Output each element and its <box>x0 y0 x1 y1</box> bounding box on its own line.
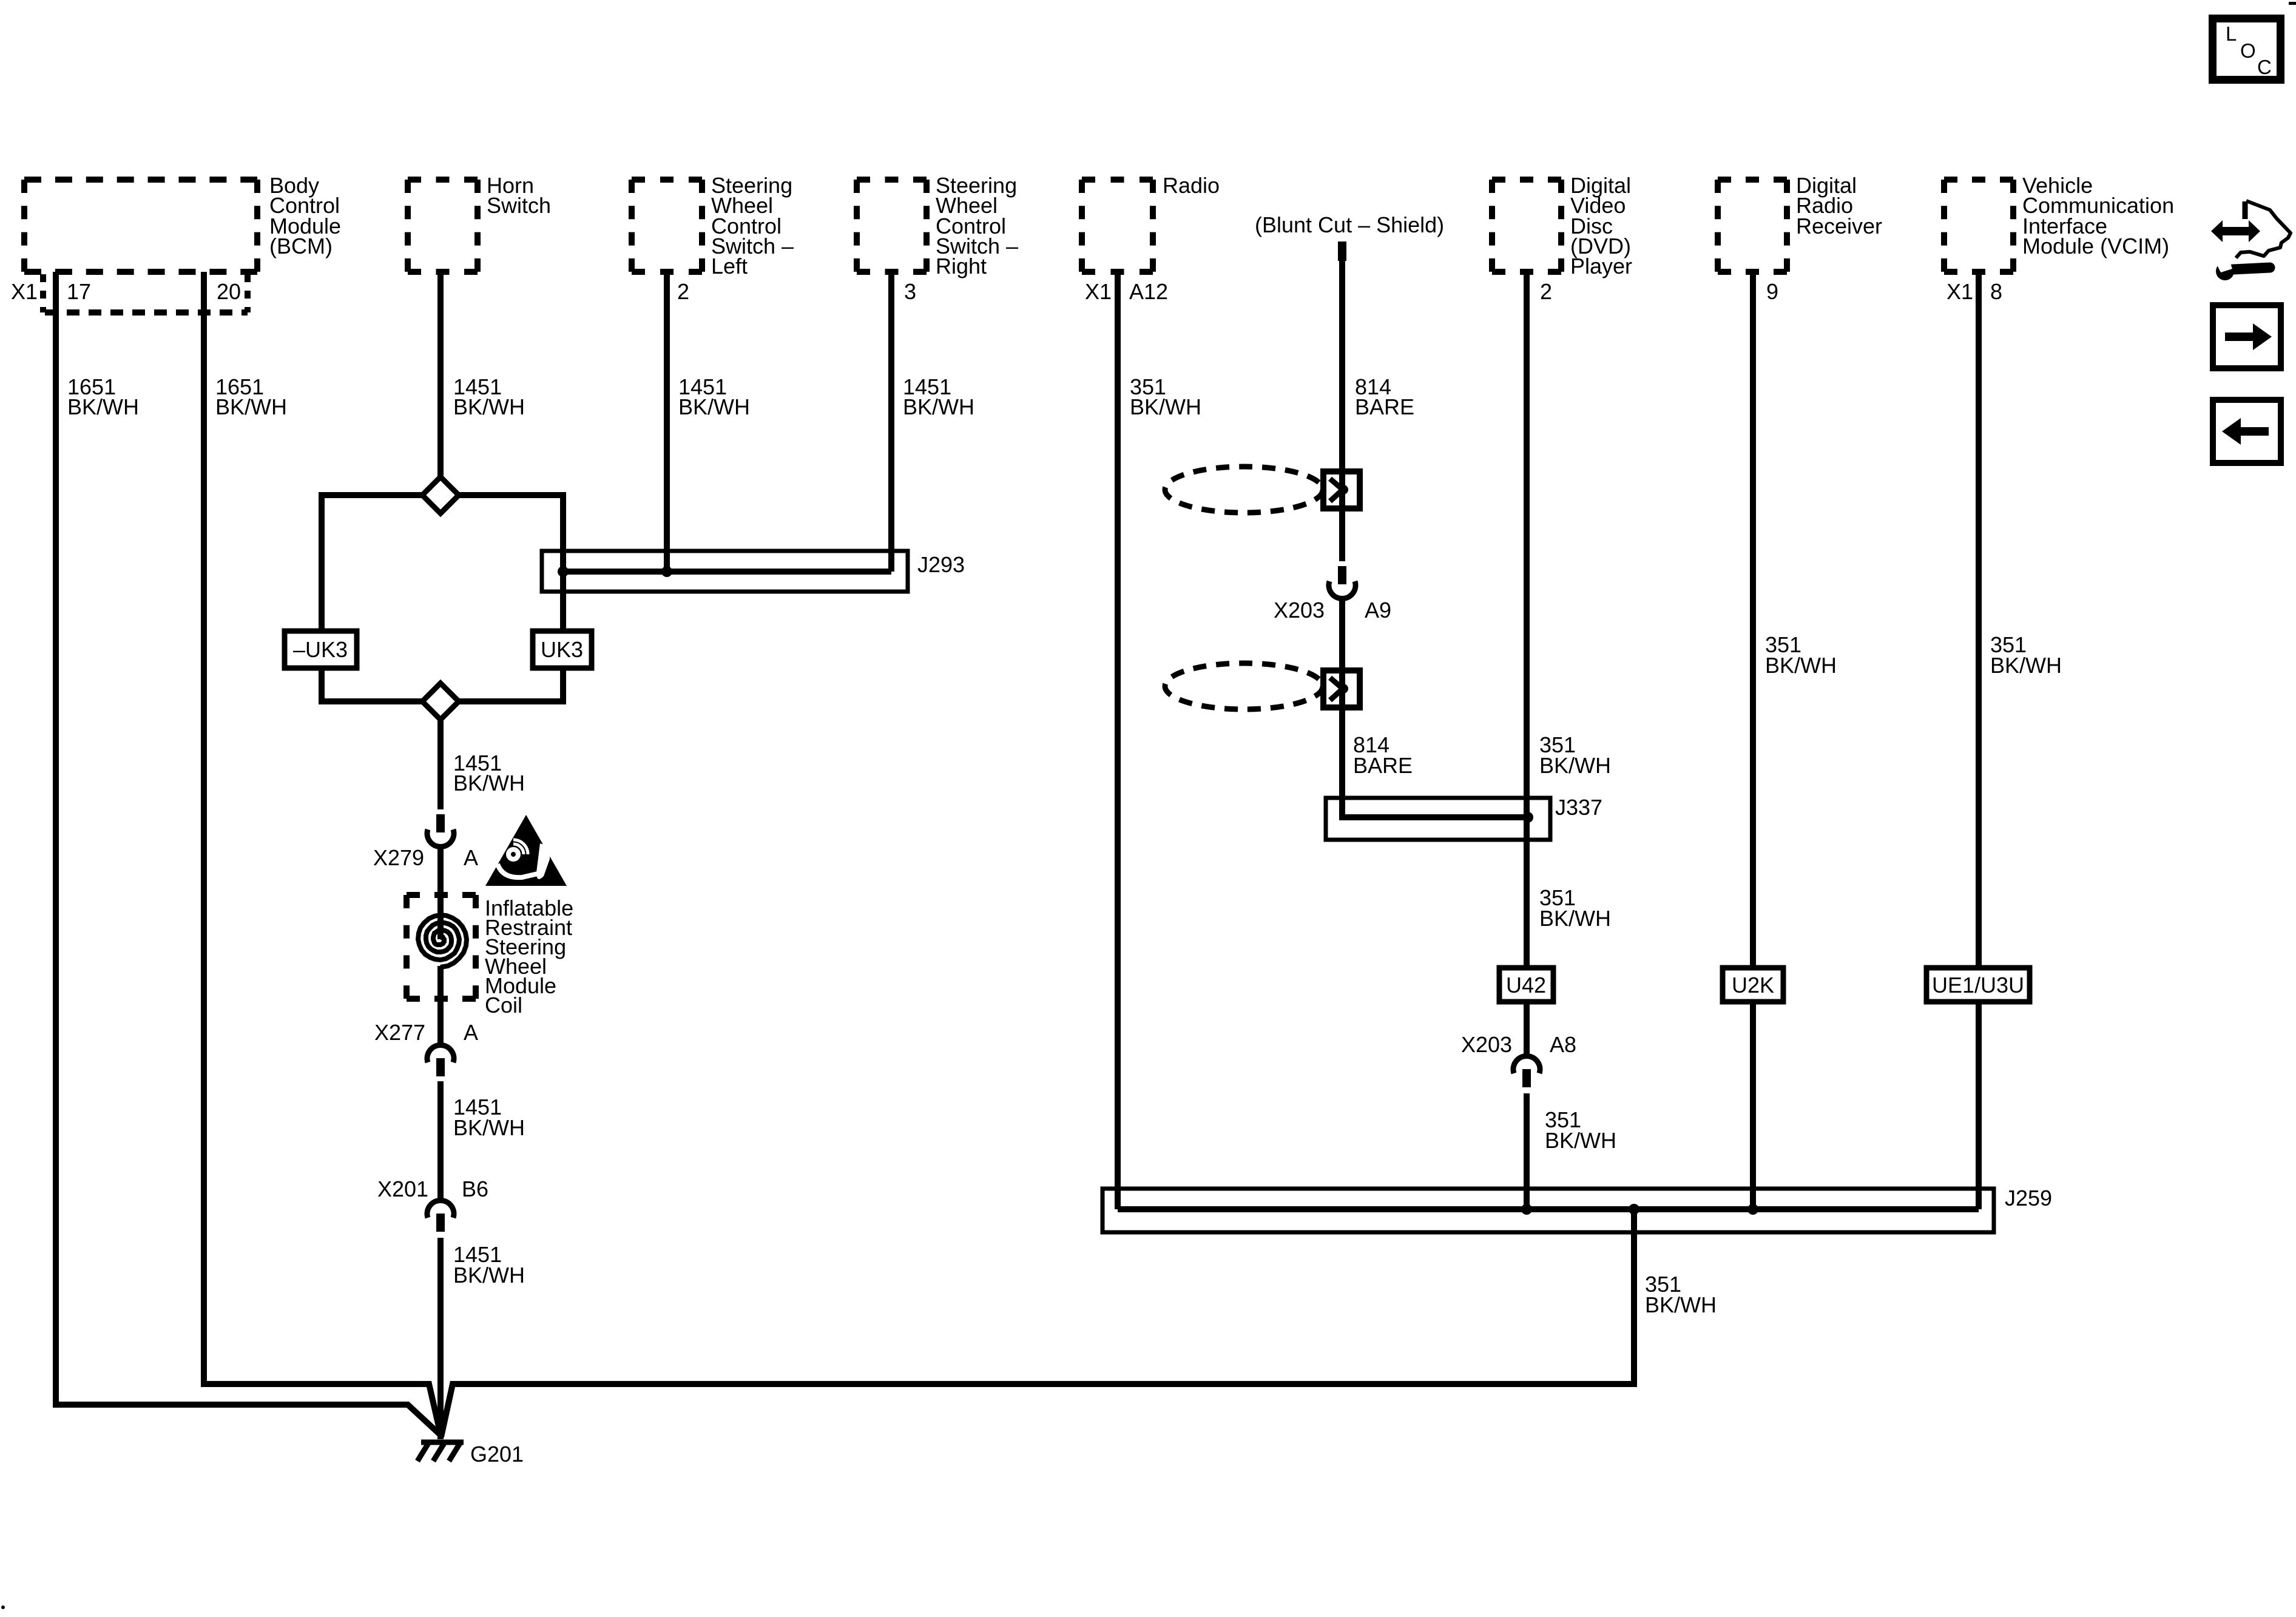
steering wheel control switch left label <box>711 173 794 279</box>
svg-text:Left: Left <box>711 254 748 279</box>
svg-text:UE1/U3U: UE1/U3U <box>1932 973 2024 998</box>
RPO box UE1/U3U <box>1926 968 2030 1002</box>
connector X203 A9 male terminal <box>1338 566 1346 584</box>
VCIM label <box>2022 173 2174 258</box>
wire label 1451 BK/WH above X201 <box>453 1095 525 1140</box>
svg-text:BK/WH: BK/WH <box>1539 753 1611 778</box>
body control module (BCM) dashed box <box>24 180 257 272</box>
svg-text:BK/WH: BK/WH <box>1545 1128 1616 1153</box>
coil spiral <box>418 915 467 967</box>
connector X203 A8 male terminal <box>1522 1069 1531 1087</box>
junction dot J259 DVD <box>1521 1204 1532 1215</box>
svg-text:Player: Player <box>1570 254 1632 279</box>
svg-text:2: 2 <box>677 279 689 304</box>
svg-text:–UK3: –UK3 <box>293 637 348 662</box>
splice pack J293 box <box>542 551 908 592</box>
wire 1451 BK/WH steering wheel control switch right to splice J293 <box>888 272 894 572</box>
digital radio receiver label <box>1796 173 1882 238</box>
SIR caution triangle <box>485 815 567 886</box>
svg-text:BK/WH: BK/WH <box>1765 653 1837 678</box>
svg-text:BK/WH: BK/WH <box>1130 394 1201 419</box>
svg-text:BK/WH: BK/WH <box>453 1115 525 1140</box>
svg-text:BK/WH: BK/WH <box>903 394 974 419</box>
wire 351 BK/WH VCIM to splice J259 <box>1976 272 1982 1209</box>
connector X279 female cup <box>427 829 454 847</box>
wire label 351 BK/WH ground drop <box>1645 1272 1717 1317</box>
svg-text:Switch: Switch <box>487 193 551 218</box>
wire left branch lower <box>319 665 325 704</box>
wire label 1451 BK/WH below X201 <box>453 1242 525 1288</box>
shield symbol 2 box <box>1323 670 1360 707</box>
svg-text:J259: J259 <box>2005 1186 2052 1210</box>
wire right branch upper through J293 <box>560 492 566 634</box>
svg-text:UK3: UK3 <box>541 637 583 662</box>
svg-text:X277: X277 <box>374 1020 425 1045</box>
svg-text:BK/WH: BK/WH <box>678 394 750 419</box>
legend forward arrow box <box>2213 305 2281 368</box>
svg-text:BARE: BARE <box>1355 394 1414 419</box>
shield symbol 2 drain arrow <box>1330 678 1348 700</box>
wire label 1451 BK/WH SWCS left <box>678 374 750 419</box>
svg-text:17: 17 <box>67 279 91 304</box>
RPO box U42 <box>1499 968 1553 1002</box>
svg-text:9: 9 <box>1766 279 1778 304</box>
svg-text:A: A <box>464 1020 478 1045</box>
junction dot J293 left <box>558 566 569 577</box>
page artifact top right <box>2289 2 2296 5</box>
steering wheel control switch right dashed box <box>857 180 927 272</box>
connector X279 male terminal <box>436 814 445 832</box>
svg-text:U42: U42 <box>1506 973 1546 998</box>
BCM label <box>269 173 341 258</box>
radio dashed box <box>1082 180 1153 272</box>
wire 351 BK/WH from splice J259 to ground G201 <box>441 1209 1634 1437</box>
svg-text:A12: A12 <box>1129 279 1168 304</box>
wire 1451 BK/WH X279 to coil <box>437 847 444 939</box>
legend back arrow box <box>2213 400 2281 463</box>
wire 351 BK/WH X203 A8 to splice J259 <box>1524 1093 1530 1209</box>
wire lower loop horizontal right <box>456 698 563 704</box>
wire label 351 BK/WH below X203 A8 <box>1545 1107 1616 1153</box>
steering wheel control switch left dashed box <box>632 180 702 272</box>
svg-text:BK/WH: BK/WH <box>1645 1292 1717 1317</box>
RPO box U2K <box>1723 968 1783 1002</box>
junction dot J259 DRR <box>1747 1204 1758 1215</box>
wire 1451 BK/WH steering wheel control switch left to splice J293 <box>664 272 670 572</box>
svg-text:Coil: Coil <box>485 993 522 1018</box>
wire label 1651 BK/WH pin 20 <box>215 374 287 419</box>
circuit option box UK3 <box>533 631 592 668</box>
wire 1451 BK/WH X277 to connector X201 <box>437 1081 444 1201</box>
connector X277 female cup <box>427 1045 454 1062</box>
wire label 1451 BK/WH below diamond <box>453 751 525 795</box>
svg-text:(BCM): (BCM) <box>269 234 333 258</box>
circuit option box -UK3 <box>285 631 357 668</box>
svg-text:BK/WH: BK/WH <box>453 394 525 419</box>
connector X203 A8 female cup <box>1513 1056 1540 1073</box>
splice J293 bus bar <box>563 569 891 575</box>
svg-text:X201: X201 <box>377 1176 428 1201</box>
coil module label <box>485 896 573 1018</box>
svg-text:X203: X203 <box>1461 1032 1512 1057</box>
svg-text:8: 8 <box>1990 279 2002 304</box>
shield symbol 1 box <box>1323 471 1360 508</box>
connector X277 male terminal <box>436 1058 445 1076</box>
connector X201 female cup <box>427 1200 454 1218</box>
svg-text:2: 2 <box>1540 279 1552 304</box>
wire label 351 BK/WH VCIM <box>1990 632 2062 678</box>
wire upper loop horizontal left <box>322 492 425 498</box>
svg-text:C: C <box>2257 56 2272 78</box>
wire 1451 BK/WH coil to connector X277 <box>437 966 444 1046</box>
wire 351 BK/WH digital radio receiver to splice J259 <box>1750 272 1756 1209</box>
junction dot J293 centre <box>661 566 672 577</box>
wire 1451 BK/WH diamond to connector X279 <box>437 720 444 809</box>
wire label 814 BARE blunt cut <box>1355 374 1414 419</box>
svg-text:J337: J337 <box>1555 795 1602 820</box>
wire label 351 BK/WH radio <box>1130 374 1201 419</box>
svg-text:BK/WH: BK/WH <box>453 771 525 795</box>
shield drain ellipse 2 <box>1165 663 1323 709</box>
svg-text:O: O <box>2240 39 2256 62</box>
ground G201 symbol <box>417 1442 464 1461</box>
svg-text:Right: Right <box>936 254 987 279</box>
diamond junction lower <box>422 683 459 720</box>
svg-text:X1: X1 <box>11 279 38 304</box>
legend connector repair icon <box>2211 201 2291 280</box>
wire label 351 BK/WH below J337 <box>1539 885 1611 931</box>
wire 814 BARE blunt cut to connector X203 A9 <box>1339 261 1345 561</box>
splice pack J259 box <box>1102 1189 1994 1232</box>
wire label 1451 BK/WH SWCS right <box>903 374 974 419</box>
horn switch dashed box <box>408 180 478 272</box>
steering wheel control switch right label <box>936 173 1018 279</box>
wire label 1451 BK/WH horn <box>453 374 525 419</box>
wire lower loop horizontal left <box>322 698 425 704</box>
junction dot J337 <box>1522 812 1533 823</box>
svg-text:A: A <box>464 845 478 870</box>
wire label 1651 BK/WH pin 17 <box>67 374 139 419</box>
junction dot J259 ground drop <box>1629 1204 1639 1215</box>
wire 1451 BK/WH X201 to ground G201 <box>437 1238 444 1439</box>
svg-text:20: 20 <box>217 279 241 304</box>
wire label 351 BK/WH above J337 <box>1539 732 1611 778</box>
splice J259 bus bar <box>1118 1206 1979 1212</box>
svg-text:BK/WH: BK/WH <box>1990 653 2062 678</box>
wire 814 BARE X203 to splice J337 <box>1342 599 1528 817</box>
blunt cut shield terminal <box>1338 241 1346 261</box>
svg-text:L: L <box>2226 22 2237 45</box>
shield drain ellipse 1 <box>1165 467 1323 513</box>
wire label 351 BK/WH DRR <box>1765 632 1837 678</box>
BCM X1 connector dashed box <box>43 274 248 312</box>
diamond junction upper <box>422 477 459 513</box>
svg-text:X1: X1 <box>1085 279 1112 304</box>
wire 1651 BK/WH from BCM pin 17 to ground G201 <box>56 272 441 1436</box>
horn switch label <box>487 173 551 218</box>
svg-text:X1: X1 <box>1947 279 1973 304</box>
wire 351 BK/WH radio to splice J259 <box>1115 272 1121 1209</box>
wire 1451 BK/WH horn switch to diamond node <box>437 272 444 479</box>
page artifact bottom left <box>1 1605 5 1609</box>
svg-text:X203: X203 <box>1274 598 1325 623</box>
svg-text:BK/WH: BK/WH <box>215 394 287 419</box>
wire right branch lower <box>560 665 566 704</box>
vehicle communication interface module (VCIM) dashed box <box>1944 180 2013 272</box>
svg-text:J293: J293 <box>917 552 965 577</box>
svg-text:(Blunt Cut – Shield): (Blunt Cut – Shield) <box>1255 212 1444 237</box>
wire 1651 BK/WH from BCM pin 20 to ground G201 <box>204 272 441 1437</box>
svg-text:Radio: Radio <box>1163 173 1220 198</box>
svg-text:BK/WH: BK/WH <box>1539 906 1611 931</box>
legend LOC box <box>2213 19 2281 80</box>
svg-text:Module (VCIM): Module (VCIM) <box>2022 234 2169 258</box>
inflatable restraint steering wheel module coil dashed box <box>407 895 476 999</box>
svg-text:G201: G201 <box>470 1442 524 1467</box>
wire upper loop horizontal right <box>456 492 563 498</box>
svg-text:BK/WH: BK/WH <box>453 1263 525 1288</box>
digital video disc (DVD) player dashed box <box>1492 180 1561 272</box>
wire left branch upper <box>319 492 325 634</box>
DVD player label <box>1570 173 1632 279</box>
svg-text:X279: X279 <box>373 845 424 870</box>
svg-text:U2K: U2K <box>1732 973 1774 998</box>
svg-text:BK/WH: BK/WH <box>67 394 139 419</box>
wire 351 BK/WH DVD player to connector X203 A8 <box>1524 272 1530 1056</box>
connector X201 male terminal <box>436 1214 445 1232</box>
svg-text:A8: A8 <box>1550 1032 1576 1057</box>
digital radio receiver dashed box <box>1718 180 1787 272</box>
svg-text:A9: A9 <box>1365 598 1391 623</box>
connector X203 A9 female cup <box>1329 581 1356 599</box>
wire label 814 BARE below shield <box>1353 732 1413 778</box>
svg-text:BARE: BARE <box>1353 753 1413 778</box>
svg-text:3: 3 <box>904 279 916 304</box>
svg-text:B6: B6 <box>462 1176 488 1201</box>
splice pack J337 box <box>1326 798 1550 840</box>
shield symbol 1 drain arrow <box>1330 479 1348 501</box>
svg-text:Receiver: Receiver <box>1796 214 1882 238</box>
